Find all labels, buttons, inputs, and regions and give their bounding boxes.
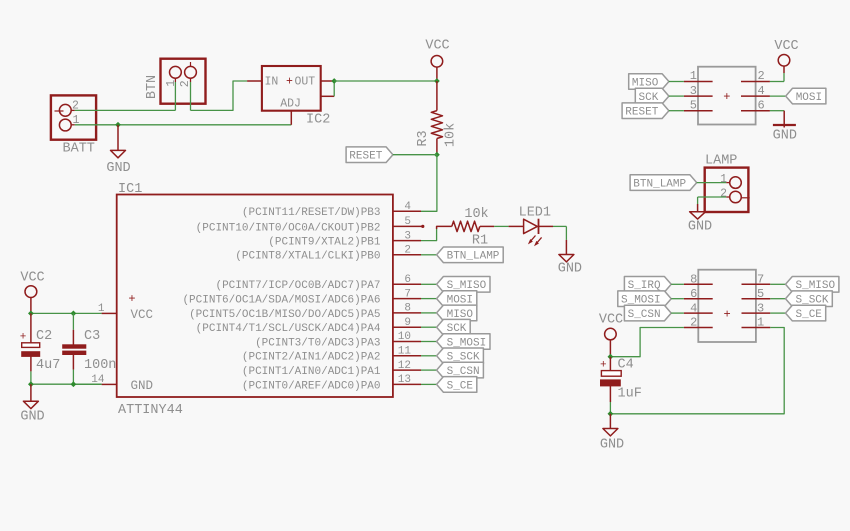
IC1 pin name PB2	[196, 222, 381, 234]
BTN pin 1 circle	[170, 66, 182, 78]
svg-text:(PCINT0/AREF/ADC0)PA0: (PCINT0/AREF/ADC0)PA0	[242, 380, 381, 392]
wire OUT2 to +OUT	[333, 81, 335, 96]
RF pin 6 line	[684, 298, 713, 300]
svg-text:8: 8	[404, 303, 411, 315]
svg-text:S_CE: S_CE	[796, 309, 823, 321]
IC1 pin number 10	[398, 331, 411, 343]
svg-text:12: 12	[398, 360, 411, 372]
RF pin number 2	[690, 316, 697, 330]
svg-text:OUT: OUT	[295, 76, 316, 89]
IC1 pin number 8	[404, 303, 411, 315]
supply VCC (top)	[425, 39, 449, 82]
svg-text:(PCINT10/INT0/OC0A/CKOUT)PB2: (PCINT10/INT0/OC0A/CKOUT)PB2	[196, 222, 381, 234]
IC1 pin 2 stub	[393, 254, 421, 256]
svg-text:(PCINT11/RESET/DW)PB3: (PCINT11/RESET/DW)PB3	[242, 207, 381, 219]
IC1 pin name PA1	[242, 366, 381, 378]
ground GND (C4)	[600, 414, 624, 453]
wire RESET net down to IC1 pin 4	[421, 155, 437, 212]
IC1 pin 13 stub	[393, 383, 421, 385]
IC1 pin name PB3	[242, 207, 381, 219]
capacitor C3 100n	[63, 313, 86, 384]
value 1uF	[618, 387, 642, 402]
capacitor C4 1uF (polarized)	[600, 357, 621, 414]
wire ISP pin 2 to VCC	[770, 73, 784, 82]
wire cap rail to pin 14	[73, 383, 101, 385]
wire IC1 pin 3 to R1	[421, 226, 452, 240]
RF pin 3 line	[742, 312, 771, 314]
net flag MISO	[437, 305, 477, 321]
svg-text:VCC: VCC	[599, 313, 623, 328]
wire BTN pin2 drop	[190, 78, 192, 110]
junction VCC/R3	[434, 78, 440, 84]
IC1 pin number 14	[91, 374, 105, 386]
svg-text:+: +	[723, 307, 730, 321]
ground GND (LAMP)	[688, 212, 712, 235]
svg-text:8: 8	[690, 273, 697, 287]
junction R3/RESET	[434, 152, 440, 158]
svg-text:(PCINT4/T1/SCL/USCK/ADC4)PA4: (PCINT4/T1/SCL/USCK/ADC4)PA4	[196, 323, 381, 335]
svg-text:IC2: IC2	[306, 113, 330, 128]
svg-text:7: 7	[404, 288, 411, 300]
svg-text:BATT: BATT	[63, 142, 95, 157]
net flag BTN_LAMP (IC1 pin 2)	[437, 247, 504, 263]
ISP pin number 5	[690, 98, 697, 112]
junction C3 top	[71, 311, 77, 317]
IC1 pin number 1	[98, 303, 105, 315]
IC1 pin name PA5	[189, 309, 380, 321]
svg-text:IN: IN	[265, 76, 279, 89]
IC1 pin 6 stub	[393, 283, 421, 285]
LAMP pin number 1	[720, 173, 727, 186]
svg-text:GND: GND	[106, 161, 130, 176]
wire RF pin 5 to S_SCK	[770, 298, 785, 300]
BTN pin number 2 (rotated)	[179, 80, 192, 87]
wire S_IRQ to RF pin 8	[671, 283, 684, 285]
wire RF pin 7 to S_MISO	[770, 283, 785, 285]
wire RF pin 1 to C4 bottom	[610, 328, 784, 414]
wire RESET to ISP pin 5	[669, 110, 684, 112]
IC1 pin number 9	[404, 317, 411, 329]
svg-text:ADJ: ADJ	[280, 98, 301, 111]
RF pin number 4	[690, 301, 697, 315]
capacitor C2 4u7 (polarized)	[20, 313, 40, 384]
junction C4 bottom	[608, 411, 614, 417]
net flag MOSI	[437, 291, 477, 307]
wire BTN pin2 to IC2 IN	[191, 81, 248, 110]
svg-text:BTN_LAMP: BTN_LAMP	[633, 179, 686, 191]
connector BTN (2-pin button header)	[161, 59, 206, 104]
LED LED1	[509, 219, 553, 234]
net flag S_SCK	[786, 291, 833, 307]
wire LED1 cathode to GND	[553, 226, 566, 254]
wire R1 to LED1	[494, 225, 509, 227]
IC1 pin name PB1	[268, 237, 381, 249]
RF pin 5 line	[742, 298, 771, 300]
RF pin 1 line	[742, 327, 771, 329]
IC IC1 ATTINY44 box	[117, 195, 393, 398]
wire RF pin 2 to VCC/C4	[610, 328, 684, 357]
svg-text:RESET: RESET	[625, 107, 658, 119]
IC2 pin name OUT	[295, 76, 316, 89]
svg-text:10: 10	[398, 331, 411, 343]
svg-text:C4: C4	[618, 358, 634, 373]
IC1 pin number 5	[404, 216, 411, 228]
regulator IC2 box	[262, 66, 321, 111]
svg-text:5: 5	[757, 287, 764, 301]
wire IC1 to S_MISO	[421, 283, 437, 285]
IC1 pin number 11	[398, 346, 412, 358]
svg-text:+: +	[286, 76, 293, 89]
IC1 pin 9 stub	[393, 326, 421, 328]
supply VCC (C4)	[599, 313, 623, 357]
svg-text:RESET: RESET	[349, 151, 382, 163]
label BATT	[63, 142, 95, 157]
IC1 pin 8 stub	[393, 312, 421, 314]
svg-text:5: 5	[690, 98, 697, 112]
IC1 plus mark	[128, 292, 135, 306]
IC2 pin ADJ stub	[290, 111, 292, 125]
supply VCC (ISP)	[774, 39, 798, 73]
label C4	[618, 358, 634, 373]
wire RF pin 3 to S_CE	[770, 312, 785, 314]
wire BATT pin1 to IC2 ADJ	[71, 124, 291, 126]
svg-text:2: 2	[690, 316, 697, 330]
value 10k of R1	[464, 207, 488, 222]
LED1 emission arrows	[528, 236, 542, 247]
wire IC1 to S_MOSI	[421, 341, 437, 343]
svg-text:S_CSN: S_CSN	[628, 309, 661, 321]
svg-text:2: 2	[404, 245, 411, 257]
ISP pin 2 line	[741, 81, 770, 83]
wire IC1 to S_CE	[421, 383, 437, 385]
wire BTN_LAMP to LAMP pin 1	[697, 182, 730, 184]
svg-text:C2: C2	[36, 329, 52, 344]
net flag MISO (ISP)	[629, 74, 669, 90]
wire S_CSN to RF pin 4	[671, 312, 684, 314]
ground GND (below BATT wire)	[106, 125, 130, 176]
IC1 pin 5 stub (n.c.)	[393, 225, 425, 228]
BATT pin 2 circle	[55, 104, 72, 116]
svg-text:BTN_LAMP: BTN_LAMP	[447, 251, 500, 263]
BTN pin number 1 (rotated)	[165, 80, 178, 87]
wire IC1 to S_CSN	[421, 369, 437, 371]
svg-text:+: +	[128, 292, 135, 306]
ISP pin 5 line	[684, 110, 713, 112]
svg-text:GND: GND	[558, 262, 582, 277]
svg-text:5: 5	[404, 216, 411, 228]
label ATTINY44	[118, 403, 183, 418]
wire IC1 to SCK	[421, 326, 437, 328]
wire IC1 to S_SCK	[421, 355, 437, 357]
net flag S_MOSI	[437, 334, 490, 350]
wire SCK to ISP pin 3	[669, 95, 684, 97]
net flag S_MOSI	[618, 291, 671, 307]
svg-text:+: +	[723, 90, 730, 104]
ISP pin 4 line	[741, 95, 770, 97]
BTN pin 2 circle	[185, 62, 197, 78]
IC1 pin 4 stub	[393, 210, 421, 212]
junction C3 bottom	[71, 381, 77, 387]
RF pin number 6	[690, 287, 697, 301]
BATT pin number 2	[72, 100, 79, 113]
svg-text:6: 6	[690, 287, 697, 301]
ISP pin 1 line	[684, 81, 713, 83]
label BTN (rotated)	[145, 75, 160, 99]
resistor R3 10k (vertical)	[431, 81, 442, 155]
svg-text:4: 4	[404, 201, 411, 213]
LAMP pin 1 circle	[730, 177, 742, 189]
label IC1	[118, 182, 142, 197]
svg-text:LED1: LED1	[519, 206, 551, 221]
svg-text:R1: R1	[472, 234, 488, 249]
ground GND (LED1)	[558, 255, 582, 277]
net flag S_CE	[786, 305, 826, 321]
svg-text:(PCINT1/AIN0/ADC1)PA1: (PCINT1/AIN0/ADC1)PA1	[242, 366, 381, 378]
svg-text:2: 2	[758, 69, 765, 83]
svg-text:GND: GND	[131, 379, 154, 393]
resistor R1 10k (horizontal)	[452, 221, 494, 231]
label C2	[36, 329, 52, 344]
svg-text:3: 3	[757, 301, 764, 315]
junction C2 bottom	[28, 381, 34, 387]
ISP pin number 1	[690, 69, 697, 83]
IC1 pin number 2	[404, 245, 411, 257]
RF pin number 5	[757, 287, 764, 301]
IC1 pin 3 stub	[393, 240, 421, 242]
junction at IC2 output	[331, 78, 337, 84]
RF pin number 1	[757, 316, 764, 330]
svg-text:GND: GND	[773, 129, 797, 144]
RF pin number 3	[757, 301, 764, 315]
IC1 pin number 12	[398, 360, 411, 372]
wire BTN pin1 drop	[174, 78, 176, 110]
RF pin 7 line	[742, 283, 771, 285]
RF pin number 8	[690, 273, 697, 287]
svg-text:11: 11	[398, 346, 412, 358]
net flag BTN_LAMP (LAMP)	[630, 175, 697, 191]
svg-text:(PCINT3/T0/ADC3)PA3: (PCINT3/T0/ADC3)PA3	[255, 337, 380, 349]
svg-text:ATTINY44: ATTINY44	[118, 403, 183, 418]
connector LAMP box	[705, 168, 749, 212]
wire cap bottom rail	[31, 383, 102, 385]
wire IC1 to MOSI	[421, 298, 437, 300]
label R3 (rotated)	[416, 130, 431, 146]
value 10k of R3 (rotated)	[444, 123, 459, 147]
wire ISP pin 4 to MOSI	[770, 95, 786, 97]
svg-text:+: +	[600, 359, 607, 371]
ISP pin number 2	[758, 69, 765, 83]
ISP plus mark	[723, 90, 730, 104]
IC1 pin name PB0	[235, 251, 380, 263]
IC1 pin number 7	[404, 288, 411, 300]
IC1 pin name VCC	[131, 308, 154, 322]
IC1 pin number 4	[404, 201, 411, 213]
net flag S_CSN	[437, 362, 484, 378]
svg-text:(PCINT7/ICP/OC0B/ADC7)PA7: (PCINT7/ICP/OC0B/ADC7)PA7	[215, 280, 380, 292]
IC1 pin name GND	[131, 379, 154, 393]
ground GND (left)	[20, 384, 44, 424]
IC1 pin 7 stub	[393, 298, 421, 300]
BATT pin number 1	[73, 114, 80, 127]
label IC2	[306, 113, 330, 128]
IC1 pin 12 stub	[393, 369, 421, 371]
IC1 pin name PA6	[182, 295, 380, 307]
ISP pin number 6	[758, 98, 765, 112]
IC2 pin name ADJ	[280, 98, 301, 111]
label LED1	[519, 206, 551, 221]
svg-text:4u7: 4u7	[36, 358, 60, 373]
IC2 pin name IN	[265, 76, 279, 89]
svg-text:VCC: VCC	[131, 308, 154, 322]
svg-text:1: 1	[690, 69, 697, 83]
wire IC1 to MISO	[421, 312, 437, 314]
svg-text:(PCINT8/XTAL1/CLKI)PB0: (PCINT8/XTAL1/CLKI)PB0	[235, 251, 380, 263]
svg-text:GND: GND	[20, 410, 44, 425]
svg-text:3: 3	[404, 230, 411, 242]
svg-text:4: 4	[690, 301, 697, 315]
supply VCC (left)	[20, 271, 44, 314]
junction VCC/C4	[608, 354, 614, 360]
net flag S_CSN	[624, 305, 671, 321]
svg-text:4: 4	[758, 84, 765, 98]
svg-text:MOSI: MOSI	[796, 92, 822, 104]
wire IC2 out to VCC node	[334, 80, 437, 82]
BATT pin 1 circle	[59, 119, 71, 131]
svg-text:(PCINT9/XTAL2)PB1: (PCINT9/XTAL2)PB1	[268, 237, 381, 249]
junction at GND tap	[115, 122, 121, 128]
IC2 pin OUT2 stub	[321, 95, 335, 97]
RF pin number 7	[757, 273, 764, 287]
IC1 pin 10 stub	[393, 341, 421, 343]
net flag S_CE	[437, 377, 477, 393]
IC1 pin name PA4	[196, 323, 381, 335]
LAMP pin 2 circle	[730, 191, 750, 203]
svg-text:1: 1	[720, 173, 727, 186]
IC1 pin number 13	[398, 374, 411, 386]
svg-text:GND: GND	[600, 437, 624, 452]
connector RF header box	[698, 270, 756, 342]
svg-text:BTN: BTN	[145, 75, 160, 99]
net flag S_MISO	[437, 277, 490, 293]
svg-text:10k: 10k	[464, 207, 488, 222]
wire MISO to ISP pin 1	[669, 81, 684, 83]
svg-text:1uF: 1uF	[618, 387, 642, 402]
ISP pin number 4	[758, 84, 765, 98]
svg-text:(PCINT2/AIN1/ADC2)PA2: (PCINT2/AIN1/ADC2)PA2	[242, 352, 381, 364]
IC2 plus mark	[286, 76, 293, 89]
IC1 pin name PA0	[242, 380, 381, 392]
wire BATT pin2 to BTN pin1	[71, 109, 175, 111]
IC1 pin name PA3	[255, 337, 380, 349]
IC1 pin number 6	[404, 274, 411, 286]
IC1 pin name PA2	[242, 352, 381, 364]
svg-text:VCC: VCC	[20, 271, 44, 286]
IC2 pin IN stub	[247, 80, 262, 82]
label LAMP	[705, 153, 737, 168]
net flag S_IRQ	[624, 277, 671, 293]
IC1 pin 14 stub	[102, 383, 117, 385]
wire S_MOSI to RF pin 6	[671, 298, 684, 300]
RF pin 4 line	[684, 312, 713, 314]
svg-text:IC1: IC1	[118, 182, 142, 197]
svg-text:7: 7	[757, 273, 764, 287]
net flag RESET (ISP)	[622, 103, 669, 119]
net flag S_MISO	[786, 277, 839, 293]
connector ISP header box	[698, 67, 756, 125]
svg-text:2: 2	[720, 187, 727, 200]
wire LAMP pin 2 to GND	[698, 197, 730, 212]
RF pin 8 line	[684, 283, 713, 285]
svg-text:13: 13	[398, 374, 411, 386]
wire VCC rail to pin 1	[31, 312, 102, 314]
svg-text:R3: R3	[416, 130, 431, 146]
wire IC1 pin 2	[421, 254, 437, 256]
junction VCC/C2	[28, 311, 34, 317]
value 100n	[84, 358, 116, 373]
svg-text:+: +	[20, 332, 27, 344]
LAMP pin number 2	[720, 187, 727, 200]
svg-text:(PCINT6/OC1A/SDA/MOSI/ADC6)PA6: (PCINT6/OC1A/SDA/MOSI/ADC6)PA6	[182, 295, 380, 307]
net flag S_SCK	[437, 348, 484, 364]
svg-text:GND: GND	[688, 219, 712, 234]
ISP pin 3 line	[684, 95, 713, 97]
ISP pin 6 line	[741, 110, 770, 112]
RF pin 2 line	[684, 327, 713, 329]
svg-text:6: 6	[404, 274, 411, 286]
IC1 pin 1 stub	[102, 312, 117, 314]
svg-text:3: 3	[690, 84, 697, 98]
wire ISP pin 6 to GND	[770, 111, 784, 128]
svg-text:(PCINT5/OC1B/MISO/DO/ADC5)PA5: (PCINT5/OC1B/MISO/DO/ADC5)PA5	[189, 309, 380, 321]
net flag SCK	[437, 319, 471, 335]
net flag SCK (ISP)	[635, 88, 669, 104]
svg-text:S_CE: S_CE	[447, 380, 474, 392]
label R1	[472, 234, 488, 249]
IC1 pin name PA7	[215, 280, 380, 292]
net flag MOSI (ISP)	[786, 88, 826, 104]
RF plus mark	[723, 307, 730, 321]
svg-text:LAMP: LAMP	[705, 153, 737, 168]
svg-text:VCC: VCC	[774, 39, 798, 54]
value 4u7	[36, 358, 60, 373]
svg-text:C3: C3	[84, 329, 100, 344]
svg-text:6: 6	[758, 98, 765, 112]
svg-text:9: 9	[404, 317, 411, 329]
wire RESET to junction	[393, 154, 437, 156]
ISP pin number 3	[690, 84, 697, 98]
IC1 pin 11 stub	[393, 355, 421, 357]
svg-text:10k: 10k	[444, 123, 459, 147]
ground GND (ISP, bar style)	[773, 125, 797, 144]
connector BATT (2-pin battery header)	[51, 95, 96, 139]
svg-text:100n: 100n	[84, 358, 116, 373]
label C3	[84, 329, 100, 344]
IC2 pin +OUT stub	[321, 80, 335, 82]
svg-text:VCC: VCC	[425, 39, 449, 54]
svg-text:1: 1	[757, 316, 764, 330]
net flag RESET	[346, 147, 393, 163]
IC1 pin number 3	[404, 230, 411, 242]
